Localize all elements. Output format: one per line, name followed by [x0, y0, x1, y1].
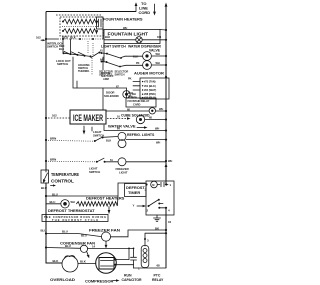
svg-text:BLK: BLK — [70, 36, 77, 40]
wire icemaker mid drop — [102, 57, 104, 70]
freezer fan arrow — [105, 242, 107, 247]
svg-text:THE DEFROST CYCLE: THE DEFROST CYCLE — [52, 218, 98, 222]
svg-text:BLK: BLK — [128, 91, 133, 95]
PTC relay body — [141, 246, 149, 268]
wire dashed feed to ice maker — [48, 117, 70, 119]
svg-text:OVERLOAD: OVERLOAD — [50, 277, 75, 282]
svg-text:COMPRESSOR: COMPRESSOR — [85, 279, 114, 284]
freezer fan motor — [101, 232, 110, 241]
wire L1 arrow up to line cord — [135, 4, 137, 12]
wire icemaker box feed — [102, 88, 104, 110]
svg-text:BLK: BLK — [53, 259, 60, 263]
bus arrow up — [165, 163, 168, 167]
wire overload to compressor — [78, 263, 96, 265]
wire legend stubs — [133, 82, 140, 90]
timer switch — [149, 200, 159, 207]
dashed drop — [91, 58, 93, 75]
svg-text:LIGHT SWITCH: LIGHT SWITCH — [101, 45, 126, 49]
svg-text:WH: WH — [71, 200, 75, 204]
svg-text:WATER VALVE: WATER VALVE — [108, 124, 136, 129]
svg-text:ICE MAKER: ICE MAKER — [73, 113, 103, 123]
arrow below ice maker box — [83, 126, 85, 132]
wire water valve return — [104, 125, 166, 131]
fountain heater box (dashed) — [60, 17, 103, 36]
svg-text:102: 102 — [36, 35, 41, 39]
svg-text:102: 102 — [52, 114, 57, 118]
temperature control box — [41, 170, 49, 183]
svg-text:THERMO.: THERMO. — [78, 69, 90, 73]
fountain light lamp — [104, 39, 166, 41]
svg-text:TIMER: TIMER — [128, 190, 140, 195]
wire freezer fan right — [111, 230, 166, 237]
svg-text:WH: WH — [168, 159, 172, 163]
svg-text:DEFROST THERMOSTAT: DEFROST THERMOSTAT — [48, 208, 95, 213]
condenser fan arrow — [87, 252, 89, 256]
note box — [42, 215, 108, 222]
svg-text:BLU: BLU — [41, 229, 47, 233]
fountain light box — [104, 30, 160, 44]
svg-text:BLK: BLK — [105, 35, 110, 39]
wire N arrow down from line cord — [154, 4, 156, 13]
defrost heater resistor — [77, 202, 118, 206]
svg-text:PK: PK — [136, 61, 140, 65]
svg-text:RELAY: RELAY — [152, 278, 164, 282]
svg-text:SWITCH: SWITCH — [115, 73, 125, 77]
svg-text:WH: WH — [156, 61, 160, 65]
arrow down — [108, 207, 110, 212]
dashed drops from heater box — [88, 41, 93, 55]
wire cap bottom — [134, 267, 146, 269]
svg-text:#61 (BLK): #61 (BLK) — [144, 84, 156, 88]
wire refrig lights row — [45, 139, 47, 141]
svg-text:BLK: BLK — [59, 47, 64, 51]
svg-text:#14 (BLU): #14 (BLU) — [144, 96, 156, 100]
wire dispenser valve row — [125, 55, 166, 57]
timer motor — [145, 183, 147, 185]
heater connector box — [97, 17, 104, 29]
label DEFROST TIMER box — [125, 184, 147, 197]
svg-text:#68 (PNK): #68 (PNK) — [144, 92, 156, 96]
svg-text:164: 164 — [157, 35, 162, 39]
wire freezer fan left — [46, 234, 101, 237]
svg-text:PK: PK — [128, 77, 132, 81]
condenser fan motor — [80, 245, 87, 252]
svg-text:BLK: BLK — [106, 138, 111, 142]
wires compressor to cap/relay — [116, 260, 134, 265]
svg-text:REFRIG. LIGHTS: REFRIG. LIGHTS — [127, 133, 155, 137]
svg-text:BLK: BLK — [80, 260, 87, 264]
ICE MAKER box — [70, 110, 106, 124]
svg-text:Y: Y — [133, 204, 135, 208]
svg-text:BRN: BRN — [50, 136, 56, 140]
refrigerator lamps — [118, 132, 126, 140]
wire from fountain box down — [103, 44, 105, 63]
svg-text:BLU: BLU — [41, 186, 47, 190]
wire legend feed — [165, 76, 167, 78]
svg-text:AUGER MOTOR: AUGER MOTOR — [134, 71, 164, 76]
svg-text:68: 68 — [157, 264, 161, 268]
svg-text:FOUNTAIN HEATERS: FOUNTAIN HEATERS — [103, 17, 143, 22]
wire freezer light row — [45, 160, 47, 162]
svg-text:CARD: CARD — [133, 103, 140, 107]
svg-text:WH: WH — [123, 26, 127, 30]
freezer light lamp — [118, 158, 126, 166]
wire PTC top to bus — [145, 233, 166, 246]
dashed wire from ice maker to water valve — [107, 118, 128, 120]
defrost timer box — [146, 181, 174, 215]
svg-text:WH: WH — [156, 52, 160, 56]
wire color legend box — [140, 78, 169, 99]
wire auger motor row — [120, 65, 166, 67]
svg-text:BLU: BLU — [62, 230, 68, 234]
svg-text:16: 16 — [168, 220, 172, 224]
fountain heater resistor 1 — [63, 19, 97, 24]
auger switch row — [102, 62, 121, 67]
wire L1 top horizontal to line cord — [46, 11, 136, 13]
heater mid dashed wire — [62, 26, 99, 28]
freezer light switch blade — [97, 158, 104, 162]
svg-text:DEFROST HEATERS: DEFROST HEATERS — [86, 196, 125, 201]
fountain delay card box — [126, 98, 156, 107]
water valve solenoid — [136, 115, 144, 123]
wire bus from terminal 4 down — [165, 208, 167, 268]
svg-text:WH: WH — [159, 107, 163, 111]
door solenoid — [126, 88, 128, 98]
overload protector — [62, 256, 78, 272]
wire left bus L1 vertical — [45, 12, 47, 171]
run capacitor — [131, 248, 137, 268]
cabinet dashed line top — [56, 14, 101, 16]
svg-text:BLU: BLU — [65, 244, 71, 248]
wire cube solenoid — [106, 110, 166, 112]
wire right bus N (top arrow) — [165, 3, 168, 7]
svg-text:BLK: BLK — [133, 55, 138, 59]
svg-text:WH: WH — [155, 127, 159, 131]
wire icemaker left drop — [73, 57, 127, 88]
auger motor — [143, 61, 152, 70]
water dispenser valve coil — [143, 52, 152, 61]
svg-text:CONTROL: CONTROL — [51, 179, 74, 184]
svg-text:CUBE SOLENOID: CUBE SOLENOID — [121, 113, 150, 117]
cube solenoid coil — [149, 108, 155, 114]
svg-text:SWITCH: SWITCH — [89, 170, 100, 174]
wire condenser fan left — [46, 247, 80, 250]
svg-text:14: 14 — [92, 244, 96, 248]
svg-text:BLU: BLU — [50, 200, 56, 204]
svg-text:#73 (TAN): #73 (TAN) — [144, 80, 156, 84]
wire PTC bottom — [145, 267, 166, 269]
svg-text:PTC: PTC — [154, 274, 161, 278]
dispenser switch contacts — [102, 53, 126, 58]
svg-text:LIGHT: LIGHT — [119, 170, 128, 174]
svg-text:SOLENOID: SOLENOID — [104, 94, 119, 98]
icemaker switch contact row — [64, 51, 99, 57]
wire down to icemaker contacts — [63, 39, 71, 54]
svg-text:M: M — [152, 183, 154, 187]
svg-text:CAPACITOR: CAPACITOR — [122, 278, 143, 282]
svg-text:TEMPERATURE: TEMPERATURE — [51, 172, 79, 177]
wire defrost to timer — [46, 183, 145, 196]
svg-text:VALVE: VALVE — [149, 49, 161, 53]
svg-text:RUN: RUN — [124, 274, 132, 278]
wire short drop — [76, 81, 78, 88]
timer ground — [154, 215, 161, 221]
compressor — [96, 253, 117, 274]
svg-text:ARM: ARM — [103, 77, 109, 81]
svg-text:BAL: BAL — [128, 94, 134, 98]
svg-text:#64 (WHT): #64 (WHT) — [144, 88, 156, 92]
svg-text:WH: WH — [156, 141, 160, 145]
svg-text:BRN: BRN — [50, 157, 56, 161]
wire heater bottom bus — [46, 38, 58, 40]
svg-text:CORD: CORD — [139, 10, 151, 15]
svg-text:SWITCHES: SWITCHES — [99, 73, 113, 77]
svg-text:SWITCH: SWITCH — [57, 62, 68, 66]
light switch blade — [95, 137, 102, 141]
svg-text:FREEZER FAN: FREEZER FAN — [89, 228, 120, 233]
fountain heater resistor 2 — [63, 29, 97, 34]
node defrost junction — [45, 195, 47, 197]
svg-text:SWITCH: SWITCH — [47, 45, 58, 49]
wire condenser fan right — [88, 247, 134, 249]
svg-text:FOUNTAIN LIGHT: FOUNTAIN LIGHT — [108, 32, 149, 37]
